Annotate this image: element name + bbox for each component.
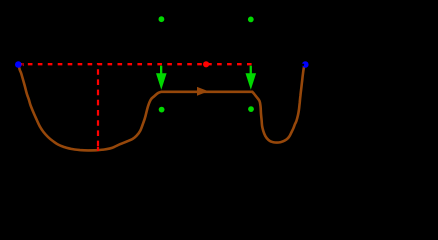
node: green zero (lower right) [248, 106, 254, 112]
green arrow (left, pointing down from dashed line to contour) [156, 66, 167, 90]
green arrow (right, pointing down from dashed line to contour) [246, 66, 257, 90]
node: blue endpoint (right) [302, 61, 309, 68]
notch on right blue endpoint [302, 64, 304, 66]
node: red saddle point (center) [203, 61, 209, 67]
arrowhead on contour (pointing right, mid horizontal segment) [197, 87, 209, 96]
node: green zero (top right) [248, 17, 254, 23]
node: green zero (lower left) [159, 107, 165, 113]
vertical red dashed line at x=98 [97, 63, 99, 146]
node: green zero (top left) [159, 16, 165, 22]
node: blue endpoint (left) [15, 61, 22, 68]
bottom fragment of vertical dashed line overlapping contour [97, 147, 99, 151]
wire: brown deformed contour (big left valley, horizontal saddle segment, narrow right valley) [19, 64, 305, 150]
stray dash fragment near left endpoint [22, 63, 25, 66]
horizontal red dashed line (original contour) y=64 [18, 63, 252, 65]
